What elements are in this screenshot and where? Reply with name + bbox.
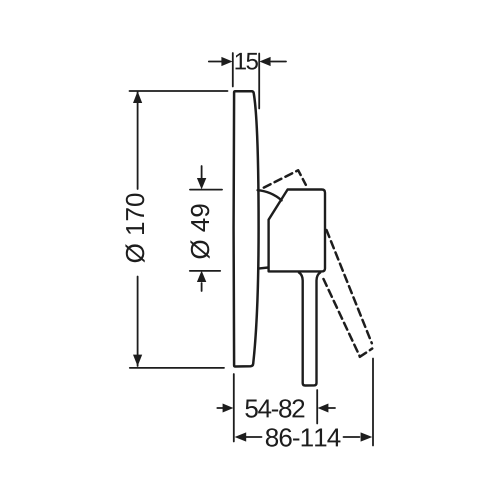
dim 49: top arrow tail bbox=[201, 166, 203, 178]
dim 15: right arrowhead bbox=[259, 57, 270, 66]
dashed handle body (tilted-up position) bbox=[264, 170, 306, 187]
dim 86-114: left arrowhead bbox=[235, 432, 247, 441]
dim 49: bottom arrow tail bbox=[201, 283, 203, 291]
dim 49: top extension line bbox=[190, 189, 222, 191]
dim text Ø 170 (rotated) bbox=[125, 194, 144, 263]
dashed lever (swung position) upper edge bbox=[327, 230, 372, 343]
dashed lever end cap bbox=[360, 349, 372, 357]
dashed lever (swung position) lower edge bbox=[324, 279, 360, 356]
dim 86-114: right extension line (dashed lever end) bbox=[372, 359, 374, 446]
handle body bbox=[269, 190, 325, 272]
dim text 86-114 bbox=[266, 428, 341, 447]
escutcheon plate side profile bbox=[234, 91, 259, 366]
dim 49: top arrowhead bbox=[197, 178, 206, 189]
dim 170: dimension line lower segment bbox=[137, 277, 139, 367]
dim 54-82: right leader line bbox=[328, 407, 335, 409]
dim 170: bottom extension line bbox=[130, 367, 224, 369]
lever handle (solid, down position) bbox=[299, 273, 320, 386]
dim text 54-82 bbox=[245, 399, 304, 418]
dim 49: bottom arrowhead bbox=[197, 271, 206, 282]
dim 54-82: left extension line (plate face) bbox=[233, 374, 235, 442]
dim 15: right leader line bbox=[271, 61, 286, 63]
dim 86-114: right line segment bbox=[344, 436, 360, 438]
dim 15: right extension line bbox=[258, 54, 260, 109]
handle hub bottom edge bbox=[258, 268, 268, 269]
dim 54-82: left arrowhead bbox=[223, 404, 234, 413]
dim 54-82: right arrowhead bbox=[318, 404, 329, 413]
dim 15: left arrowhead bbox=[221, 57, 232, 66]
dim text Ø 49 (rotated) bbox=[190, 204, 209, 258]
handle hub top curve bbox=[258, 190, 282, 200]
dim 54-82: right extension line (lever) bbox=[316, 390, 318, 424]
dim 54-82: left leader line bbox=[217, 407, 223, 409]
dim text 15 bbox=[236, 53, 258, 70]
dim 15: left extension line bbox=[232, 53, 234, 87]
dim 170: bottom arrowhead bbox=[133, 355, 142, 367]
dim 170: top arrowhead bbox=[133, 91, 142, 103]
dim 170: top extension line bbox=[130, 90, 228, 92]
dim 86-114: right arrowhead bbox=[361, 432, 373, 441]
dim 86-114: left line segment bbox=[246, 436, 262, 438]
dim 170: dimension line upper segment bbox=[137, 92, 139, 190]
dim 49: bottom extension line bbox=[190, 270, 220, 272]
dim 15: left leader line bbox=[209, 61, 223, 63]
